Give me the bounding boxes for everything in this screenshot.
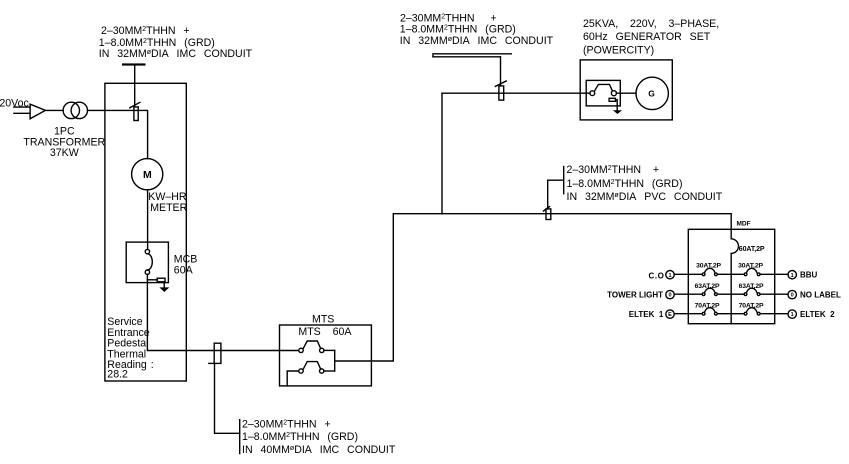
svg-text:28.2: 28.2 bbox=[107, 369, 128, 381]
svg-text:IN 32MMøDIA IMC CONDUIT: IN 32MMøDIA IMC CONDUIT bbox=[400, 35, 554, 47]
svg-text:MTS 60A: MTS 60A bbox=[298, 326, 352, 338]
transformer T1 bbox=[63, 102, 87, 118]
breaker MCB 60A contacts bbox=[145, 249, 152, 274]
svg-text:IN 32MMøDIA IMC CONDUIT: IN 32MMøDIA IMC CONDUIT bbox=[99, 48, 253, 60]
svg-text:63AT,2P: 63AT,2P bbox=[739, 283, 764, 290]
wire transformer to meter drop bbox=[88, 110, 148, 158]
wire 1R bbox=[760, 273, 788, 275]
branch row 2: TOWER LIGHT / NO LABEL bbox=[666, 288, 797, 299]
wire MTS output to MDF feeder bbox=[335, 214, 732, 361]
svg-text:1: 1 bbox=[791, 312, 794, 318]
panel MDF labels bbox=[607, 221, 841, 319]
svg-text:60AT,2P: 60AT,2P bbox=[739, 246, 765, 253]
kw-hr meter M1 bbox=[132, 159, 163, 190]
labels circuits left bbox=[607, 271, 664, 319]
switch MTS upper pole bbox=[299, 341, 324, 353]
svg-text:0: 0 bbox=[668, 293, 671, 299]
label MCB 60A bbox=[174, 253, 198, 276]
terminal circle 1L bbox=[666, 271, 674, 279]
conduit riser symbol R1 (slash + body) bbox=[130, 102, 140, 120]
label kw-hr meter bbox=[148, 191, 187, 214]
switch MTS enclosure bbox=[280, 325, 372, 386]
breaker 30AT,2P right row1 bbox=[744, 273, 747, 276]
svg-text:2–30MM2THHN +: 2–30MM2THHN + bbox=[567, 164, 660, 176]
wire meter to MCB bbox=[147, 190, 149, 250]
svg-text:70AT,2P: 70AT,2P bbox=[739, 303, 764, 310]
conduit riser symbol R2 (to 40mm conduit note) bbox=[209, 343, 221, 363]
label conduit note bottom (40mm) bbox=[242, 418, 396, 455]
wire riser drop to 40mm note bbox=[215, 363, 240, 433]
switch MTS lower pole bbox=[299, 362, 324, 374]
svg-text:MTS: MTS bbox=[312, 314, 334, 326]
label transformer bbox=[23, 125, 105, 159]
wire MCB to MTS run bbox=[147, 274, 298, 350]
svg-text:220Voc: 220Voc bbox=[0, 98, 30, 110]
leader PVC note bbox=[548, 167, 564, 209]
service entrance pedestal enclosure bbox=[105, 83, 186, 381]
svg-text:NO LABEL: NO LABEL bbox=[800, 290, 841, 299]
breaker 30AT,2P left row1 bbox=[702, 273, 705, 276]
wire generator feed bbox=[442, 92, 590, 94]
wire MTS output bus bbox=[324, 350, 335, 371]
label service entrance pedestal bbox=[107, 316, 153, 381]
label conduit note middle-right (PVC) bbox=[567, 164, 723, 203]
svg-text:63AT,2P: 63AT,2P bbox=[695, 283, 720, 290]
svg-text:IN 40MMøDIA IMC CONDUIT: IN 40MMøDIA IMC CONDUIT bbox=[242, 444, 396, 456]
svg-text:2–30MM2THHN +: 2–30MM2THHN + bbox=[242, 418, 331, 430]
node source 220Voc arrow bbox=[14, 104, 46, 119]
wire generator drop bbox=[441, 93, 443, 214]
svg-text:70AT,2P: 70AT,2P bbox=[695, 303, 720, 310]
svg-text:25KVA, 220V, 3–PHASE,: 25KVA, 220V, 3–PHASE, bbox=[583, 18, 719, 30]
wire row1 bus-to-right bbox=[731, 273, 744, 275]
svg-text:60A: 60A bbox=[174, 265, 194, 277]
alternator G circle bbox=[636, 77, 668, 109]
svg-text:60Hz GENERATOR SET: 60Hz GENERATOR SET bbox=[583, 31, 711, 43]
svg-text:ELTEK 2: ELTEK 2 bbox=[800, 310, 835, 319]
label conduit note top-left bbox=[99, 25, 253, 60]
generator breaker enclosure bbox=[586, 80, 620, 106]
svg-text:IN 32MMøDIA PVC CONDUIT: IN 32MMøDIA PVC CONDUIT bbox=[567, 191, 723, 203]
leader bar (40mm note) bbox=[239, 420, 241, 454]
wire row1 left-to-bus bbox=[717, 273, 731, 275]
branch row 3: ELTEK 1 / ELTEK 2 bbox=[666, 308, 797, 319]
branch row 1: C.O / BBU bbox=[666, 268, 797, 279]
labels branch breakers bbox=[695, 262, 764, 309]
svg-text:37KW: 37KW bbox=[50, 147, 79, 159]
svg-text:E: E bbox=[668, 312, 672, 318]
wire riser conduit (service drop) bbox=[134, 66, 136, 107]
wire arrow to transformer bbox=[45, 109, 63, 111]
breaker MCB 60A enclosure bbox=[126, 242, 168, 283]
wire 1L bbox=[674, 273, 702, 275]
wire MTS lower-left to enclosure bottom bbox=[287, 371, 299, 386]
svg-text:BBU: BBU bbox=[800, 270, 818, 279]
label generator set bbox=[583, 18, 719, 56]
conduit stub bracket (top middle) bbox=[433, 54, 511, 86]
breaker MDF main 60AT,2P arc bbox=[731, 239, 738, 254]
panel MDF enclosure bbox=[688, 229, 774, 323]
svg-text:2–30MM2THHN +: 2–30MM2THHN + bbox=[101, 25, 190, 37]
svg-text:MDF: MDF bbox=[737, 221, 751, 228]
conduit riser symbol R4 (on generator feed) bbox=[495, 81, 506, 100]
conduit riser symbol R3 (on MDF feeder, PVC note) bbox=[544, 207, 551, 220]
generator set enclosure bbox=[580, 60, 672, 120]
panel MDF bus divider bbox=[730, 229, 732, 323]
labels terminal numbers bbox=[668, 273, 794, 318]
svg-text:M: M bbox=[143, 169, 152, 181]
svg-text:1–8.0MM2THHN (GRD): 1–8.0MM2THHN (GRD) bbox=[400, 24, 516, 36]
svg-text:(POWERCITY): (POWERCITY) bbox=[583, 44, 654, 56]
svg-text:2–30MM2THHN +: 2–30MM2THHN + bbox=[400, 12, 497, 24]
svg-text:G: G bbox=[648, 88, 655, 98]
svg-text:1: 1 bbox=[791, 273, 794, 279]
svg-text:30AT,2P: 30AT,2P bbox=[738, 262, 763, 269]
svg-text:1–8.0MM2THHN (GRD): 1–8.0MM2THHN (GRD) bbox=[567, 178, 683, 190]
terminal circle 1R bbox=[788, 271, 796, 279]
svg-text:1: 1 bbox=[668, 273, 671, 279]
ground generator bbox=[609, 98, 622, 114]
label conduit note top-middle bbox=[400, 12, 554, 47]
svg-text:ELTEK 1: ELTEK 1 bbox=[629, 310, 664, 319]
conduit stub bar (top left) bbox=[122, 63, 146, 65]
wire breaker to alternator bbox=[616, 92, 636, 94]
svg-text:1–8.0MM2THHN (GRD): 1–8.0MM2THHN (GRD) bbox=[242, 431, 358, 443]
svg-text:METER: METER bbox=[150, 202, 187, 214]
svg-text:1–8.0MM2THHN (GRD): 1–8.0MM2THHN (GRD) bbox=[99, 37, 215, 49]
svg-text:0: 0 bbox=[791, 293, 794, 299]
svg-text:MCB: MCB bbox=[174, 253, 198, 265]
ground MCB (CT + earth) bbox=[147, 278, 169, 292]
label MTS bbox=[298, 314, 352, 338]
svg-text:TOWER LIGHT: TOWER LIGHT bbox=[607, 290, 663, 299]
svg-text:C.O: C.O bbox=[648, 271, 664, 280]
labels circuits right bbox=[800, 270, 841, 319]
svg-text:30AT,2P: 30AT,2P bbox=[696, 263, 721, 270]
generator breaker contacts bbox=[590, 84, 617, 95]
